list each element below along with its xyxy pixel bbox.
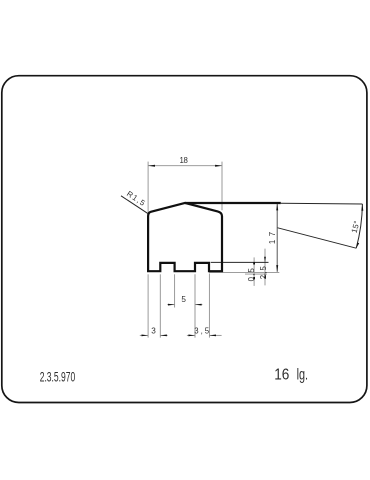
- svg-text:16: 16: [274, 367, 289, 384]
- svg-text:2,5: 2,5: [259, 265, 268, 279]
- svg-text:lg.: lg.: [297, 366, 308, 384]
- svg-text:2.3.5.970: 2.3.5.970: [40, 371, 76, 385]
- svg-text:0,5: 0,5: [247, 268, 256, 282]
- svg-text:3,5: 3,5: [194, 327, 209, 336]
- svg-text:3: 3: [151, 327, 156, 336]
- svg-text:18: 18: [180, 156, 188, 165]
- svg-text:5: 5: [181, 295, 186, 304]
- svg-text:17: 17: [268, 232, 277, 244]
